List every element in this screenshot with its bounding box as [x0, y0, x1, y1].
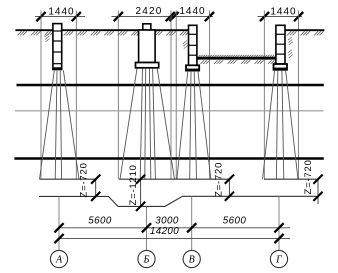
svg-text:Z=-720: Z=-720 [214, 162, 225, 197]
svg-text:5600: 5600 [223, 216, 247, 227]
top dimension line segment 1 [35, 16, 85, 18]
grid bubble V [183, 250, 200, 267]
axis extension line V down to grid bubble [191, 196, 193, 250]
elevation leader at axis V [228, 179, 230, 196]
dense hatch above tie beam [199, 55, 201, 57]
ground line segments (natural ground surface) [15, 29, 53, 31]
svg-text:1440: 1440 [48, 6, 74, 17]
pit bottom profile line with deeper pit under pile B [39, 196, 317, 206]
pit bench line at Z=-720 under pile G [264, 178, 317, 180]
extension / pit edge vertical lines [40, 11, 42, 180]
axis extension line G down to grid bubble [278, 196, 280, 250]
top dimension line segment 2 [112, 16, 214, 18]
full-width thick soil layer line 1 [17, 84, 324, 86]
svg-text:Z=-720: Z=-720 [303, 159, 314, 194]
svg-text:В: В [189, 255, 195, 266]
wall hatch beside pile A [45, 34, 49, 37]
wall hatch beside pile V [183, 41, 187, 44]
full-width thick soil layer line 2 [14, 157, 323, 159]
svg-text:5600: 5600 [88, 216, 112, 227]
driven pile fan under pile B [120, 69, 137, 180]
pit bench line at Z=-720 under piles B and V [119, 178, 229, 180]
pile B head (column with cap knob and base plate) [136, 24, 159, 68]
wall hatch beside pile G [288, 37, 292, 40]
pile G head (segmented stack with shoe) [274, 25, 288, 70]
grid bubble A [50, 250, 67, 267]
pit bench line at Z=-720 under pile A [40, 178, 96, 180]
svg-text:2420: 2420 [135, 6, 162, 17]
svg-text:Z=-720: Z=-720 [79, 162, 90, 197]
axis extension line B down to grid bubble [146, 206, 148, 250]
driven pile fan under pile A [40, 71, 55, 180]
svg-text:Z=-1210: Z=-1210 [128, 164, 139, 205]
svg-text:Г: Г [275, 255, 282, 266]
svg-text:1440: 1440 [179, 6, 205, 17]
top dimension line segment 3 [258, 16, 303, 18]
grid bubble G [270, 250, 287, 267]
axis extension line A down to grid bubble [58, 196, 60, 250]
driven pile fan under pile G [263, 70, 275, 179]
driven pile fan under pile V [177, 71, 188, 179]
ticks on bottom dimension lines [54, 223, 63, 232]
svg-text:А: А [55, 255, 63, 266]
svg-text:Б: Б [143, 255, 150, 266]
elevation leader at axis A [95, 179, 97, 196]
grid bubble B [138, 250, 155, 267]
svg-text:14200: 14200 [150, 226, 179, 237]
sparse hatch groups below tie beam [201, 60, 205, 64]
dimension tick marks on top dimension line [36, 12, 45, 21]
bottom dimension line (axis spacings) [59, 227, 291, 229]
bottom overall dimension line [59, 238, 291, 240]
svg-text:1440: 1440 [270, 6, 296, 17]
full-width thin soil layer line [15, 110, 324, 112]
elevation leader at axis B [140, 179, 142, 206]
elevation leader at axis G [317, 179, 319, 204]
ground hatching below ground line [17, 31, 21, 35]
tie beam between piles V and G [197, 57, 276, 60]
pile V head (segmented stack with shoe) [186, 25, 199, 70]
pile A head (segmented precast stack) [53, 24, 62, 70]
